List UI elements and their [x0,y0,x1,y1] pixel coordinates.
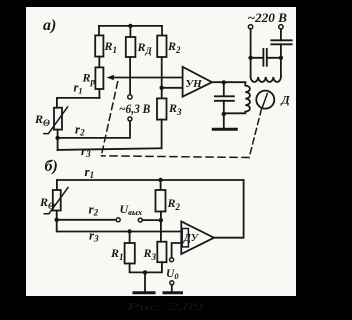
node r2b junction [55,218,59,222]
wire r3 [58,148,162,150]
svg-text:Д: Д [281,93,291,107]
resistor R3 [157,98,167,119]
ground (top circuit) [213,128,236,131]
thermistor R-theta (b) diagonal [44,188,68,214]
wire UN lower input [162,87,183,89]
wire R1 top lead [98,26,100,36]
wire R-d bottom lead to 6.3V terminal [129,57,131,95]
wire r2 (b) to output terminal [57,219,116,221]
wire 220V left [250,29,252,58]
thermistor R-theta diagonal [44,107,68,134]
wire r3 (b) [57,231,182,233]
wire R3b bottom lead [145,262,162,272]
node top-bus junction [128,24,132,28]
resistor R-d [126,37,136,57]
capacitor tank C [215,96,234,101]
terminal Uvyh right [138,218,142,222]
wire top bus [99,25,162,27]
wiper arrowhead [107,75,114,80]
wire ground stem [223,114,225,128]
svg-text:б): б) [45,158,58,175]
inductor tank L [224,82,250,113]
wire R3 bottom lead [161,120,163,149]
terminal 6.3V upper [128,95,132,99]
wire Uvyh to divider [142,219,161,221]
wire 220V right upper [280,29,282,40]
node tank bottom [222,112,226,116]
motor shaft line [263,93,268,106]
wire ground stem (b) [144,272,146,291]
wire Rp wiper line to UN input [113,77,183,79]
node UN lower input junction [160,86,164,90]
wire r2 [58,121,130,138]
dashed link horizontal [102,156,250,158]
wire DU output feedback [214,180,244,238]
ground (b left) [134,291,154,294]
dashed link diagonal to wiper [102,81,118,153]
wire R2-R3 column [161,57,163,98]
wire r1 [57,97,100,99]
node R1b top junction [127,229,131,233]
svg-text:УН: УН [186,78,203,90]
wire R2b-R3b column [160,212,162,242]
wire R1-Rp lead [98,57,100,68]
wire R-theta-b top lead [56,180,58,190]
wire R-d top lead [129,26,131,37]
svg-text:Рис. 2.89: Рис. 2.89 [125,301,204,313]
wire UN output [212,81,246,83]
svg-text:а): а) [43,17,56,34]
op-amp UN [183,67,212,97]
wire cap top lead [223,82,225,96]
resistor R2 [157,36,166,58]
wire 220 left lower [250,58,252,77]
wire R-theta-b bottom lead [56,211,58,232]
terminal 220V right [279,25,283,29]
motor D [256,91,274,109]
node 220 left [248,56,252,60]
ground (b right) [164,291,182,294]
capacitor across 220 lines [251,49,281,66]
wire R2b top lead [160,180,162,190]
terminal Uvyh left [116,218,120,222]
wire cap bottom lead [223,101,225,114]
op-amp DU [181,221,214,254]
dashed mechanical link (motor to pot) [250,109,262,155]
resistor R1 (b) [125,243,135,264]
wire r1 (b) top bus [57,179,244,181]
resistor R3 (b) [157,242,166,263]
resistor Rp (potentiometer) [95,67,103,89]
thermistor R-theta body [54,108,62,130]
node r2 junction [55,136,59,140]
terminal U0 lower [170,281,174,285]
svg-text:~6,3 В: ~6,3 В [119,102,150,116]
wire U0 ground stem [171,285,173,292]
resistor R2 (b) [156,190,166,212]
wire R-theta bottom lead [57,130,59,151]
resistor R1 [95,35,103,56]
DU input box [182,229,188,247]
thermistor R-theta (b) body [53,190,61,211]
capacitor series (in right 220V wire) [271,40,291,44]
wire U0 input [172,243,182,258]
node ground junction (b) [143,270,147,274]
inductor primary (horizontal) [251,77,281,82]
wire R1b top lead [129,232,131,244]
svg-text:~220 В: ~220 В [248,10,288,25]
wire Rp bottom lead [98,89,100,98]
node tank top [222,80,226,84]
terminal 220V left [248,25,252,29]
node 220 right [279,56,283,60]
node R2b top junction [158,178,162,182]
terminal 6.3V lower [128,117,132,121]
wire 220V right lower [280,44,282,77]
terminal U0 upper [170,258,174,262]
wire R1b bottom lead [130,264,145,273]
svg-text:ДУ: ДУ [183,233,199,244]
wire R-theta top lead [56,98,58,108]
wire R2 top lead [161,26,163,36]
node divider mid [159,218,163,222]
page background [26,7,296,296]
